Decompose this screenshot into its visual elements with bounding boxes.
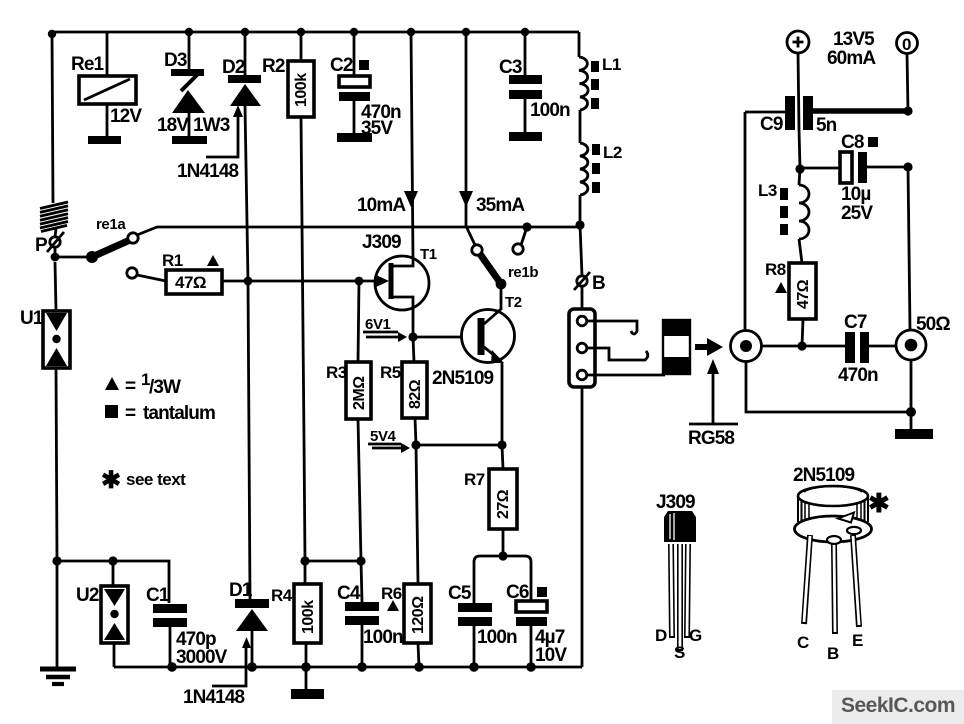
RCA jack 50ohm output [896, 314, 950, 360]
svg-text:5V4: 5V4 [370, 428, 397, 445]
svg-text:=: = [125, 376, 136, 397]
svg-text:R3: R3 [326, 363, 347, 382]
surge arrester U2 [76, 561, 128, 667]
wire connector pin2 hook [587, 348, 648, 360]
wire jack to C7 [761, 345, 845, 348]
svg-text:re1b: re1b [508, 264, 538, 281]
ground bar at 50ohm jack [895, 429, 933, 439]
svg-text:see text: see text [126, 470, 186, 489]
surge arrester U1 [20, 262, 70, 561]
label 1N4148 for D1 [183, 637, 251, 708]
resistor R7 [464, 445, 517, 529]
wire lower-left node row [52, 556, 169, 603]
svg-text:R1: R1 [162, 251, 183, 270]
svg-text:C5: C5 [448, 583, 472, 604]
svg-text:D1: D1 [229, 580, 253, 601]
svg-text:C4: C4 [337, 583, 361, 604]
wire left rail from C9 down to RCA jack [744, 112, 747, 331]
wire R3 to bottom [358, 419, 361, 561]
svg-text:D3: D3 [164, 50, 187, 71]
svg-text:C3: C3 [499, 57, 522, 78]
legend 1/3W [105, 370, 181, 398]
connector block [569, 286, 595, 667]
resistor R5 [380, 337, 427, 418]
svg-text:D2: D2 [222, 57, 245, 78]
svg-text:6V1: 6V1 [365, 316, 391, 333]
label 5V4 [368, 428, 410, 453]
svg-text:47Ω: 47Ω [795, 279, 812, 309]
svg-text:C6: C6 [506, 582, 529, 603]
wire re1a to mid bus [137, 227, 580, 235]
terminal 0 [897, 33, 918, 55]
current arrow 35mA [459, 191, 525, 216]
svg-text:2N5109: 2N5109 [793, 465, 854, 486]
diode D2 [222, 32, 261, 106]
ground (left) [40, 669, 76, 684]
capacitor C4 [337, 561, 403, 667]
capacitor C7 [838, 312, 896, 386]
svg-text:/3W: /3W [149, 377, 181, 398]
diode D1 [229, 580, 269, 667]
svg-text:R2: R2 [262, 56, 285, 77]
wire left rail to ground [56, 561, 59, 668]
svg-text:1N4148: 1N4148 [177, 161, 238, 182]
svg-text:35V: 35V [361, 118, 393, 139]
wire L3 to R8 [799, 239, 802, 263]
node B [574, 225, 605, 294]
current arrow 10mA [357, 191, 418, 216]
svg-text:C7: C7 [844, 312, 867, 333]
svg-text:Re1: Re1 [71, 54, 104, 75]
wire 0 down right rail [907, 54, 908, 111]
svg-text:1W3: 1W3 [193, 115, 230, 136]
svg-text:12V: 12V [110, 106, 142, 127]
capacitor C5 [448, 583, 517, 667]
svg-text:47Ω: 47Ω [175, 273, 206, 292]
wire 5V4 to R6 [416, 445, 418, 584]
svg-text:tantalum: tantalum [143, 403, 215, 424]
svg-text:R8: R8 [765, 260, 786, 279]
wire R2 to R4 rail [301, 117, 305, 561]
svg-text:R6: R6 [381, 584, 402, 603]
svg-text:100n: 100n [363, 627, 403, 648]
node L3/C8 [795, 164, 804, 173]
svg-text:13V5: 13V5 [833, 29, 875, 50]
svg-text:25V: 25V [841, 203, 873, 224]
phono plug [662, 319, 691, 375]
svg-text:0: 0 [902, 35, 911, 54]
svg-text:J309: J309 [656, 492, 695, 513]
svg-text:C9: C9 [760, 114, 783, 135]
capacitor C3 [499, 32, 570, 141]
label 6V1 [363, 316, 407, 342]
svg-text:100n: 100n [477, 627, 517, 648]
svg-text:D: D [655, 626, 667, 645]
svg-text:C8: C8 [841, 132, 864, 153]
transistor T2 2N5109 [432, 284, 522, 389]
svg-text:L3: L3 [758, 181, 777, 200]
svg-text:2N5109: 2N5109 [432, 368, 493, 389]
transistor J309 package drawing [655, 492, 702, 662]
legend see text [101, 467, 186, 494]
wire bottom ground bus [114, 662, 582, 672]
svg-text:82Ω: 82Ω [407, 379, 424, 409]
label 1N4148 for D2 [177, 105, 243, 182]
capacitor C6 (tantalum) [506, 582, 567, 667]
wire 5V4 bus [416, 444, 502, 447]
svg-text:470n: 470n [838, 365, 878, 386]
svg-text:C2: C2 [330, 55, 353, 76]
svg-text:100k: 100k [300, 600, 317, 634]
svg-text:SeekIC.com: SeekIC.com [841, 694, 955, 717]
svg-text:3000V: 3000V [176, 647, 228, 668]
switch re1b [466, 32, 538, 289]
JFET T1 J309 [362, 232, 437, 310]
relay Re1 [71, 32, 142, 144]
svg-text:B: B [827, 644, 839, 663]
wire T1 drain to top bus [411, 32, 413, 259]
switch re1a [86, 216, 138, 263]
svg-text:U1: U1 [20, 308, 44, 329]
wire P to switch pivot [55, 247, 92, 257]
watermark SeekIC.com [832, 690, 964, 724]
svg-text:C1: C1 [146, 585, 170, 606]
svg-text:R5: R5 [380, 363, 401, 382]
wire R8 to node [802, 319, 803, 346]
svg-text:G: G [689, 626, 702, 645]
capacitor C9 [745, 96, 908, 136]
svg-text:✱: ✱ [868, 488, 890, 518]
svg-text:E: E [852, 631, 863, 650]
capacitor C8 (electrolytic) [800, 132, 908, 224]
node right rail at C9 [903, 106, 912, 115]
svg-text:=: = [125, 403, 136, 424]
wire T2 emitter down [501, 362, 504, 445]
resistor R6 [381, 584, 431, 667]
svg-text:U2: U2 [76, 585, 99, 606]
node P junction [51, 253, 60, 262]
ground bar below R4 [291, 689, 324, 699]
terminal + (13V5) [787, 29, 876, 69]
svg-text:10V: 10V [535, 645, 567, 666]
wire R5 to 5V4 node [415, 418, 416, 445]
node 6V1 [408, 332, 417, 341]
svg-text:T1: T1 [420, 246, 437, 263]
resistor R8 [765, 260, 816, 319]
svg-text:2MΩ: 2MΩ [351, 376, 368, 410]
capacitor C1 [146, 585, 228, 668]
wire connector pin1 hook [587, 321, 637, 334]
svg-text:R4: R4 [271, 586, 293, 605]
svg-text:C: C [797, 633, 809, 652]
svg-text:10mA: 10mA [357, 195, 406, 216]
svg-text:1N4148: 1N4148 [183, 687, 244, 708]
inductor L1 [579, 32, 621, 110]
svg-text:10µ: 10µ [841, 184, 870, 205]
resistor R1 [127, 251, 222, 294]
resistor R2 [262, 32, 314, 117]
capacitor C2 (tantalum) [330, 32, 401, 142]
wire connector pin3 to plug body [587, 374, 665, 377]
legend tantalum [105, 403, 215, 424]
zener diode D3 [157, 32, 230, 144]
svg-text:120Ω: 120Ω [410, 596, 427, 634]
wire R1 to T1 gate [222, 280, 375, 283]
svg-text:35mA: 35mA [476, 195, 525, 216]
svg-text:100k: 100k [293, 73, 310, 107]
svg-text:S: S [674, 643, 685, 662]
label RG58 with arrow [688, 359, 738, 449]
inductor L2 [580, 143, 622, 195]
svg-text:re1a: re1a [96, 216, 126, 233]
svg-text:B: B [592, 273, 605, 294]
wire 6V1 to T2 base [413, 336, 478, 339]
pickup coil at P [40, 202, 68, 237]
wire + down through C9 to node [798, 53, 800, 169]
wire left rail top [52, 34, 53, 203]
svg-text:J309: J309 [362, 232, 401, 253]
wire R7 split to C5 C6 [474, 529, 531, 603]
resistor R3 [326, 281, 371, 419]
inductor L3 [758, 169, 809, 239]
wire D2 to D1 rail [245, 106, 250, 599]
svg-text:L2: L2 [603, 143, 622, 162]
wire L1 to L2 [579, 110, 582, 143]
svg-text:RG58: RG58 [688, 428, 734, 449]
svg-text:✱: ✱ [101, 467, 121, 494]
svg-text:T2: T2 [505, 294, 522, 311]
svg-text:50Ω: 50Ω [916, 314, 950, 335]
transistor 2N5109 package drawing [793, 465, 890, 663]
wire output ground loop [746, 360, 916, 429]
resistor R4 [271, 556, 366, 689]
svg-text:5n: 5n [816, 115, 837, 136]
svg-text:L1: L1 [602, 55, 621, 74]
svg-text:27Ω: 27Ω [495, 489, 512, 519]
svg-text:60mA: 60mA [827, 48, 876, 69]
arrow cable into jack [695, 338, 723, 356]
svg-text:100n: 100n [530, 100, 570, 121]
svg-text:P: P [35, 235, 48, 256]
wire L2 down to node [579, 195, 582, 225]
node mid bus right end [575, 220, 584, 229]
wire top supply bus [48, 28, 579, 38]
wire T1 source to 6V1 node [412, 310, 415, 337]
wire right rail down to 50ohm jack [908, 167, 910, 330]
svg-text:18V: 18V [157, 115, 189, 136]
terminal P [35, 232, 64, 256]
RCA jack (input from RG58) [731, 331, 762, 362]
svg-text:R7: R7 [464, 470, 485, 489]
